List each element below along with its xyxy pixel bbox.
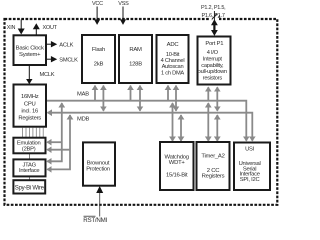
block CPU [14,85,47,127]
svg-text:ADC: ADC [167,42,180,48]
svg-text:ACLK: ACLK [59,42,73,48]
block Port P1 [198,37,231,85]
wire PortP1-MAB [207,87,209,100]
MDB bus [48,113,253,141]
svg-text:XOUT: XOUT [43,25,58,31]
svg-text:USI: USI [245,147,255,153]
svg-text:MAB: MAB [77,91,89,97]
svg-text:Flash: Flash [92,47,105,53]
MAB bus [47,101,247,141]
wire RAM-MDB [139,86,141,111]
dashed chip boundary [5,19,278,205]
svg-text:Spy-Bi Wire: Spy-Bi Wire [15,185,45,191]
svg-text:Registers: Registers [18,116,41,122]
wire Timer-MAB [207,103,209,141]
svg-text:RST/NMI: RST/NMI [83,217,107,224]
wire ADC-MDB [175,86,177,111]
svg-text:4: 4 [218,15,221,21]
svg-text:Autoscan: Autoscan [162,64,184,70]
block Timer_A2 [197,142,230,190]
wire ADC-MAB [167,86,169,100]
wire Emulation-JTAG [29,153,31,159]
svg-text:WDT+: WDT+ [169,160,186,166]
svg-text:resistors: resistors [203,75,223,81]
svg-text:4 Channel: 4 Channel [161,58,185,64]
wire branch into Emulation [47,141,62,143]
block Basic Clock System+ [14,35,47,65]
svg-text:4 I/O: 4 I/O [207,50,219,56]
pin VSS [122,7,124,20]
wire MAB to Emulation/JTAG [47,103,62,161]
svg-text:Port P1: Port P1 [205,41,223,47]
svg-text:XIN: XIN [7,25,16,31]
CPU to Emulation multi-line trunk [23,128,44,138]
wire Flash-MDB [102,86,104,111]
svg-text:pull-up/down: pull-up/down [198,69,227,75]
wire Timer-MDB [216,115,218,141]
svg-text:VCC: VCC [92,1,103,7]
svg-text:MCLK: MCLK [40,72,55,78]
wire branch into Emulation lower [47,149,70,151]
svg-text:Registers: Registers [202,174,225,180]
svg-text:RAM: RAM [129,47,142,53]
signal MCLK [28,65,30,80]
svg-text:capability,: capability, [201,63,224,69]
svg-text:Basic Clock: Basic Clock [16,46,44,52]
pin RST/NMI [99,192,101,217]
block Emulation [13,138,45,154]
pin XOUT [35,29,37,36]
svg-text:1 ch DMA: 1 ch DMA [161,70,184,76]
wire Flash-MAB [94,86,96,100]
wire Watchdog-MAB [172,103,174,141]
wire PortP1-MDB [216,87,218,111]
svg-text:(2BP): (2BP) [22,146,36,152]
svg-text:Interface: Interface [19,168,39,174]
signal ACLK [46,43,52,45]
block JTAG Interface [13,159,45,176]
block Flash [82,35,115,83]
svg-text:2kB: 2kB [94,61,104,67]
block Watchdog WDT+ [160,142,194,190]
svg-text:incl. 16: incl. 16 [21,108,39,114]
block Brownout Protection [83,142,115,185]
block USI [234,143,270,191]
svg-text:16MHz: 16MHz [21,94,39,100]
svg-text:MDB: MDB [77,116,90,122]
wire RAM-MAB [130,86,132,100]
wire Watchdog-MDB [180,115,182,141]
wire JTAG-SpyBiWire [29,176,31,180]
svg-text:15/16-Bit: 15/16-Bit [166,172,188,178]
svg-text:Protection: Protection [86,166,110,172]
block RAM [119,35,152,83]
pin VCC [96,7,98,20]
svg-text:VSS: VSS [118,1,129,7]
svg-text:Interrupt: Interrupt [203,57,223,63]
svg-text:System+: System+ [19,52,41,58]
svg-text:SPI, I2C: SPI, I2C [240,177,260,183]
svg-text:10-Bit: 10-Bit [166,52,180,58]
signal SMCLK [46,58,52,60]
pin XIN [20,20,22,30]
svg-text:Timer_A2: Timer_A2 [201,154,224,160]
svg-text:SMCLK: SMCLK [59,58,78,64]
wire MDB to Emulation/JTAG [47,115,70,169]
svg-text:CPU: CPU [24,101,36,107]
svg-text:P1.2, P1.5,: P1.2, P1.5, [201,5,226,11]
svg-text:128B: 128B [129,61,142,67]
block ADC [157,35,189,83]
block Spy-Bi Wire [13,180,45,193]
